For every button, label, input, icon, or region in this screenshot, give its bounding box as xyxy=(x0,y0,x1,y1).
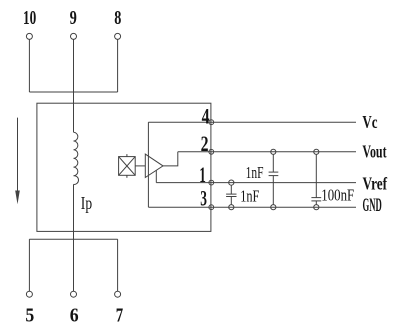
svg-text:6: 6 xyxy=(70,304,79,326)
terminal 5 xyxy=(26,291,32,297)
svg-text:2: 2 xyxy=(201,131,209,156)
pin 4 circle xyxy=(209,120,214,125)
primary coil Ip xyxy=(74,132,79,184)
wire top connector 10-8 xyxy=(29,91,117,93)
pin 2 line (Vout) xyxy=(178,151,356,153)
svg-text:GND: GND xyxy=(363,195,382,216)
svg-text:Vout: Vout xyxy=(362,141,386,161)
svg-text:9: 9 xyxy=(70,7,77,29)
terminal 6 xyxy=(71,291,77,297)
terminal 9 xyxy=(71,33,77,39)
wire pin10 down xyxy=(28,39,30,92)
svg-text:1: 1 xyxy=(199,162,206,187)
capacitor C1 1nF (Vref-GND) xyxy=(226,180,236,210)
wire amp output to pin2 xyxy=(163,152,178,166)
svg-text:3: 3 xyxy=(200,186,207,211)
pin 4 line (Vc) xyxy=(148,121,356,123)
svg-text:Vref: Vref xyxy=(363,173,388,193)
pin 2 circle xyxy=(209,149,214,154)
hall element xyxy=(119,154,136,178)
svg-text:Ip: Ip xyxy=(81,193,92,213)
terminal 8 xyxy=(115,33,121,39)
sensor body xyxy=(37,103,211,231)
asic box left edge xyxy=(147,122,149,207)
svg-text:8: 8 xyxy=(114,7,121,29)
current direction arrow xyxy=(15,118,20,205)
wire amp ref to pin1 xyxy=(155,170,157,182)
pin 1 circle xyxy=(209,180,214,185)
pin 3 line (GND) xyxy=(148,206,356,208)
terminal 7 xyxy=(115,291,121,297)
svg-text:4: 4 xyxy=(202,103,210,128)
capacitor C2 1nF (Vout-GND) xyxy=(269,149,279,210)
wire bottom connector 5-7 xyxy=(29,238,117,240)
capacitor C3 100nF (Vout-GND) xyxy=(311,149,321,210)
svg-text:1nF: 1nF xyxy=(246,163,264,182)
svg-text:5: 5 xyxy=(25,304,34,326)
wire pin5 down xyxy=(28,239,30,291)
svg-text:10: 10 xyxy=(23,7,36,29)
wire coil to pin6 xyxy=(73,184,75,291)
wire pin8 down xyxy=(117,39,119,92)
pin 1 line (Vref) xyxy=(156,182,356,184)
wire hall to amp xyxy=(135,165,145,167)
terminal 10 xyxy=(26,33,32,39)
svg-text:Vc: Vc xyxy=(362,112,377,132)
wire pin9 down to coil xyxy=(73,39,75,132)
svg-text:7: 7 xyxy=(116,304,123,326)
pin 3 circle xyxy=(209,205,214,210)
op-amp triangle xyxy=(145,154,163,177)
svg-text:1nF: 1nF xyxy=(240,187,259,206)
svg-text:100nF: 100nF xyxy=(321,185,354,204)
wire pin7 down xyxy=(117,239,119,291)
